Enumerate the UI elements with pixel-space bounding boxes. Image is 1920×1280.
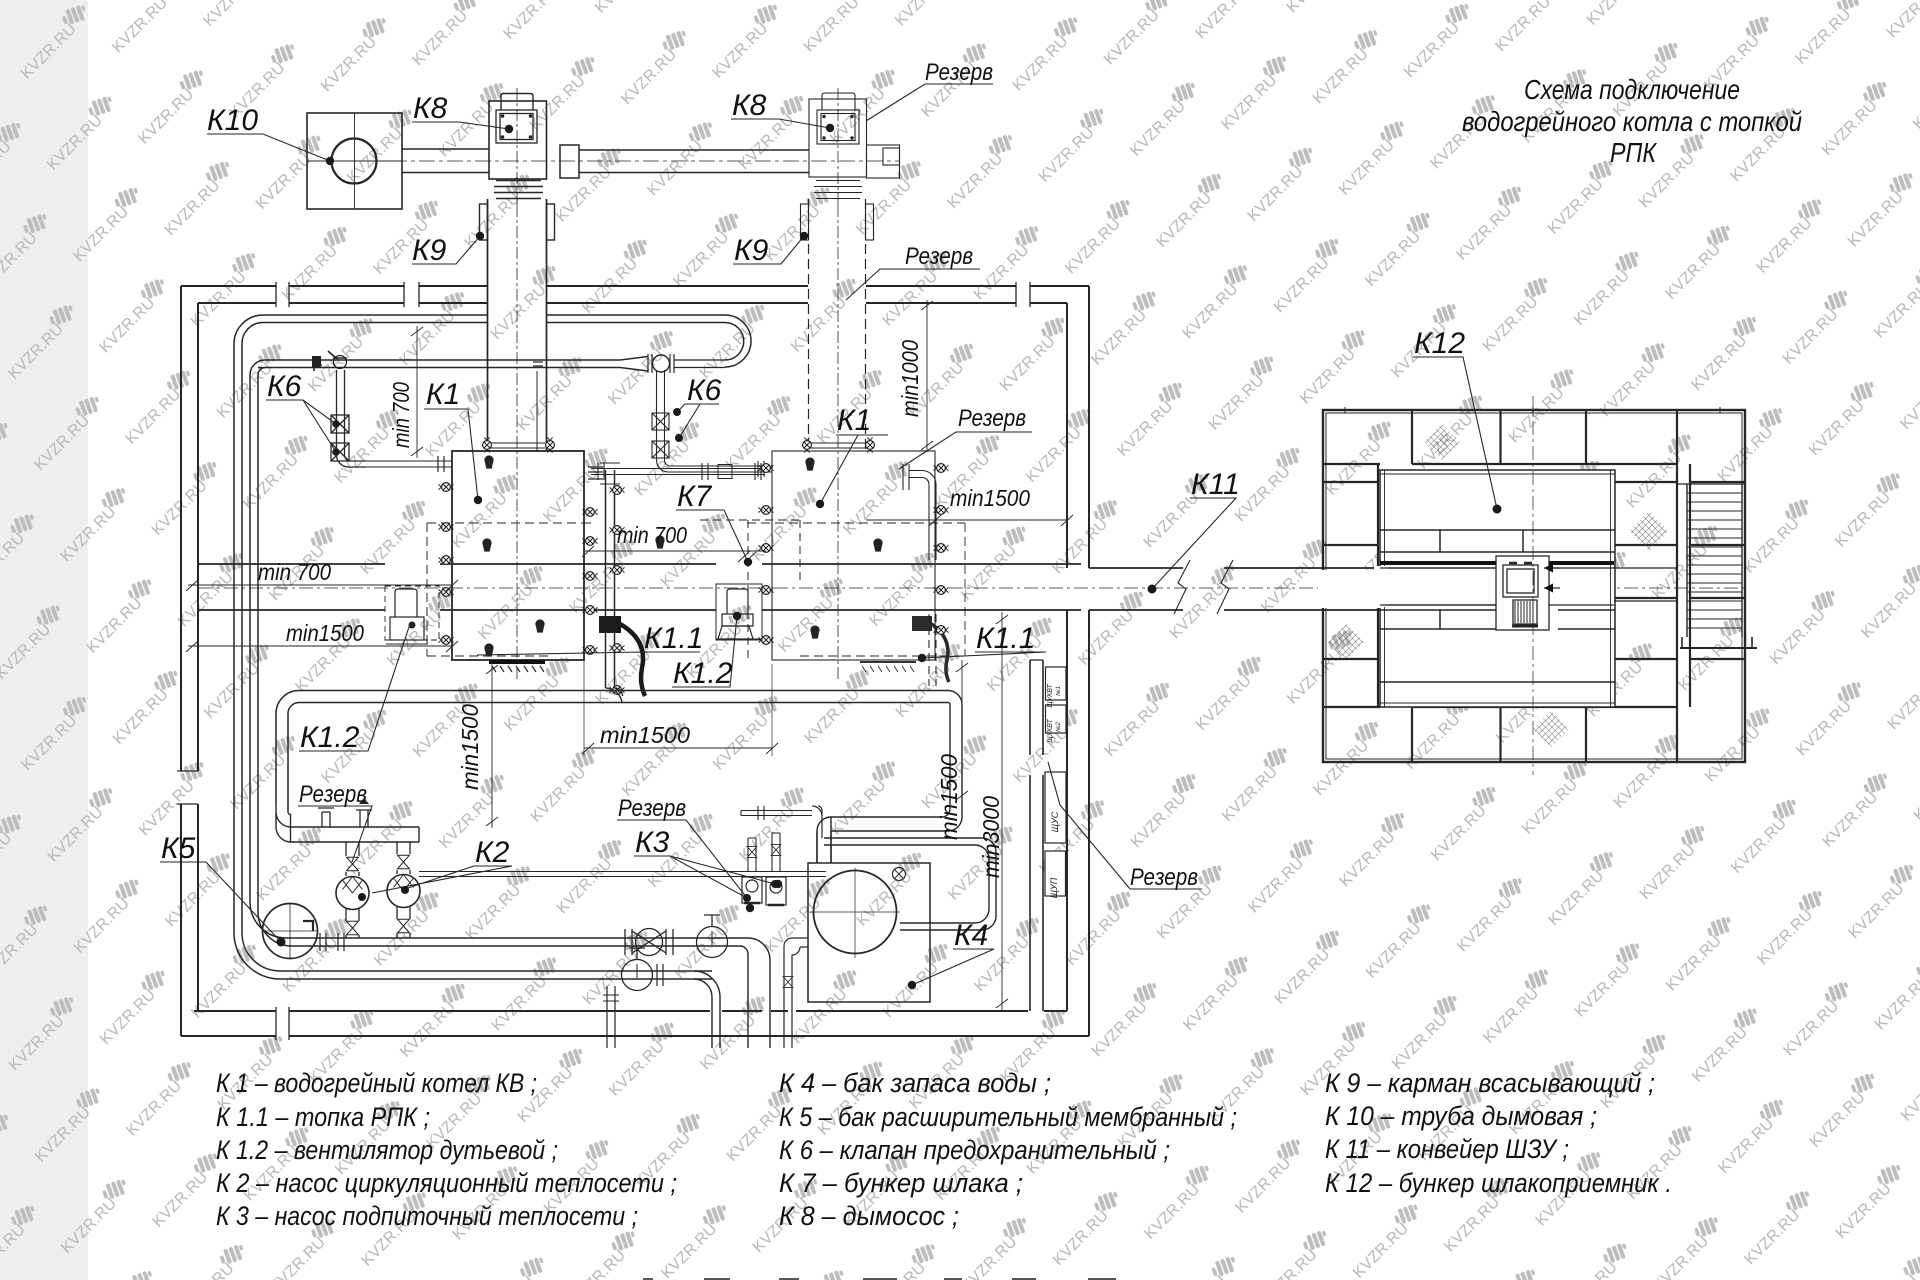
svg-text:К8: К8 [413, 92, 448, 125]
svg-text:ЩУП: ЩУП [1049, 877, 1059, 898]
svg-text:К4: К4 [954, 919, 988, 952]
svg-text:К 1 – водогрейный котел К: К 1 – водогрейный котел КВ ; [216, 1068, 537, 1098]
svg-text:К 12 – бункер шлакоприемни: К 12 – бункер шлакоприемник . [1325, 1168, 1672, 1198]
svg-text:min1500: min1500 [457, 704, 483, 790]
svg-text:К1.1: К1.1 [976, 622, 1035, 655]
svg-text:К 5 – бак расширительный: К 5 – бак расширительный мембранный ; [779, 1102, 1237, 1132]
svg-text:Резерв: Резерв [958, 405, 1026, 432]
svg-text:ЩУС: ЩУС [1050, 811, 1060, 832]
svg-text:Резерв: Резерв [1130, 864, 1198, 891]
svg-text:К 4 – бак запаса воды ;: К 4 – бак запаса воды ; [779, 1068, 1051, 1098]
svg-text:К1.1: К1.1 [644, 622, 703, 655]
svg-text:Резерв: Резерв [925, 59, 993, 86]
svg-text:К6: К6 [267, 370, 302, 403]
svg-text:К3: К3 [635, 826, 670, 859]
svg-text:min1500: min1500 [950, 485, 1030, 511]
svg-text:К 1.2 – вентилятор дутьево: К 1.2 – вентилятор дутьевой ; [216, 1135, 558, 1165]
svg-text:К2: К2 [475, 836, 510, 869]
svg-text:К 9 – карман всасывающий: К 9 – карман всасывающий ; [1325, 1068, 1655, 1098]
svg-text:min 700: min 700 [258, 559, 331, 585]
svg-text:К5: К5 [161, 832, 196, 865]
svg-text:К 10 – труба дымовая ;: К 10 – труба дымовая ; [1325, 1101, 1597, 1131]
svg-text:К 6 – клапан предохранител: К 6 – клапан предохранительный ; [779, 1135, 1170, 1165]
svg-text:min 700: min 700 [617, 522, 687, 548]
svg-text:К1.2: К1.2 [300, 721, 360, 754]
svg-text:К 7 – бункер шлака ;: К 7 – бункер шлака ; [779, 1168, 1023, 1198]
svg-text:К11: К11 [1191, 468, 1240, 501]
svg-text:К8: К8 [732, 89, 767, 122]
svg-text:К 3 – насос подпиточный т: К 3 – насос подпиточный теплосети ; [216, 1201, 638, 1231]
svg-text:К 1.1 – топка РПК ;: К 1.1 – топка РПК ; [216, 1102, 430, 1132]
svg-text:ЩУКВТ: ЩУКВТ [1047, 684, 1054, 708]
svg-text:К9: К9 [412, 234, 447, 267]
svg-text:водогрейного котла с топкой: водогрейного котла с топкой [1462, 106, 1802, 137]
svg-text:К 8 – дымосос ;: К 8 – дымосос ; [779, 1201, 959, 1231]
svg-text:№1: №1 [1055, 686, 1062, 696]
svg-text:ЩУКВТ: ЩУКВТ [1047, 719, 1054, 743]
svg-text:К1.2: К1.2 [673, 657, 733, 690]
svg-text:К 2 – насос циркуляционный: К 2 – насос циркуляционный теплосети ; [216, 1168, 677, 1198]
svg-text:К10: К10 [207, 104, 258, 137]
svg-text:Резерв: Резерв [299, 781, 367, 808]
svg-text:РПК: РПК [1610, 137, 1657, 168]
svg-text:Резерв: Резерв [618, 795, 686, 822]
svg-text:К 11 – конвейер ШЗУ ;: К 11 – конвейер ШЗУ ; [1325, 1134, 1569, 1164]
svg-text:Схема подключение: Схема подключение [1524, 74, 1740, 105]
svg-text:К1: К1 [837, 404, 871, 437]
svg-text:К6: К6 [687, 374, 722, 407]
svg-text:К9: К9 [734, 234, 769, 267]
svg-text:К7: К7 [677, 480, 713, 513]
svg-text:min1500: min1500 [600, 722, 690, 748]
svg-text:Резерв: Резерв [905, 243, 973, 270]
svg-text:min1500: min1500 [286, 620, 364, 646]
svg-text:min3000: min3000 [978, 796, 1004, 878]
svg-text:№2: №2 [1055, 721, 1062, 731]
svg-text:К12: К12 [1414, 327, 1465, 360]
svg-text:min 700: min 700 [388, 382, 414, 448]
svg-text:min1000: min1000 [897, 340, 923, 417]
svg-text:К1: К1 [426, 378, 460, 411]
svg-text:min1500: min1500 [936, 754, 962, 840]
